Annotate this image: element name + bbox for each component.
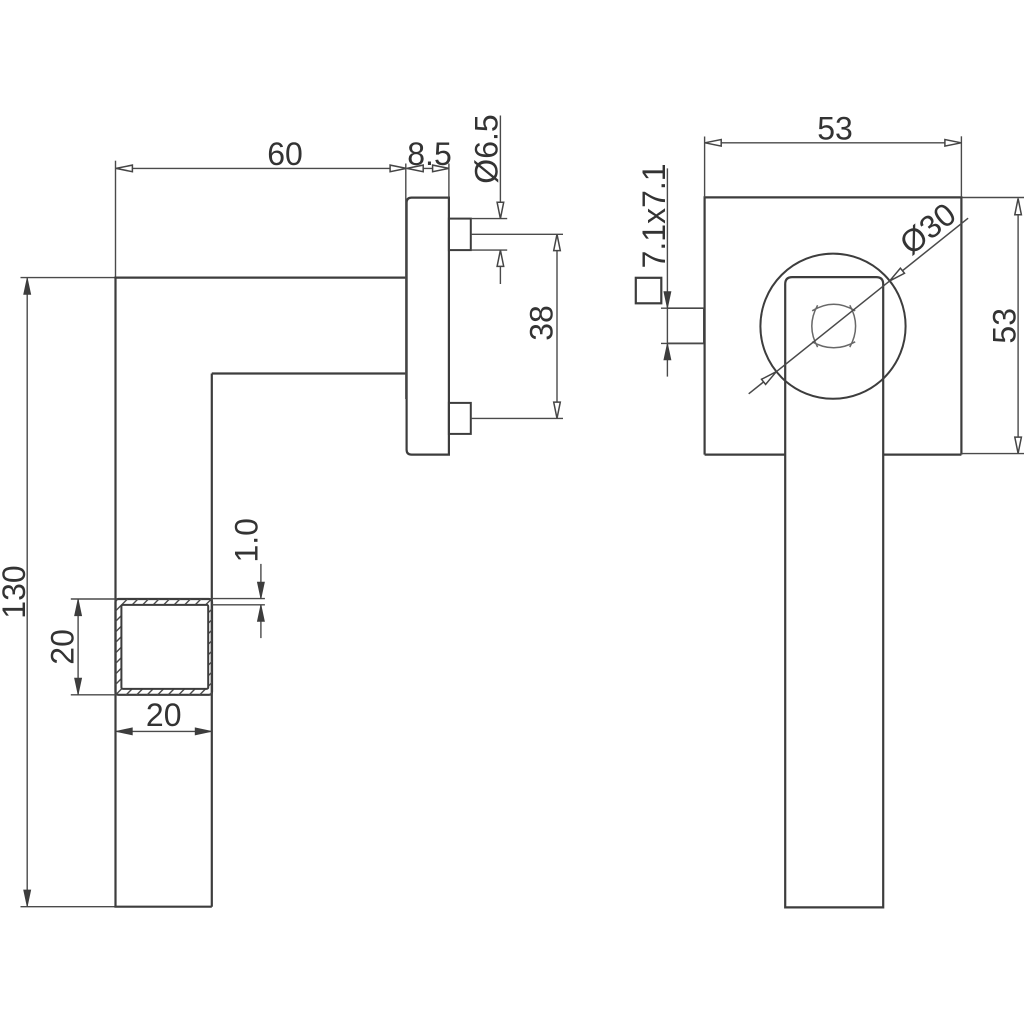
svg-text:Ø6.5: Ø6.5 — [469, 114, 505, 183]
right view: spindle square hole outline — [812, 304, 856, 348]
dimension 38 — [471, 233, 563, 235]
right view: spindle end (7.1x7.1) — [668, 308, 704, 343]
svg-text:7.1x7.1: 7.1x7.1 — [636, 163, 672, 268]
dimension 130 — [26, 278, 28, 906]
right view: neck circle dia 30 — [760, 254, 905, 399]
dimension 53 right — [961, 197, 1024, 199]
dimension 60 — [116, 167, 406, 169]
svg-text:60: 60 — [267, 136, 303, 172]
right view: handle bar front — [785, 277, 883, 907]
left view: square tube cross-section inner square — [121, 605, 208, 689]
left view: grip inner corner line — [212, 372, 407, 374]
left view: handle grip top outline — [21, 277, 116, 279]
svg-text:Ø30: Ø30 — [893, 196, 963, 262]
dimension dia 30 diagonal — [749, 218, 968, 394]
square symbol for 7.1x7.1 — [636, 278, 662, 304]
dimension 1.0 (wall thickness) — [212, 598, 265, 600]
left view: 8.5 extension line right — [448, 164, 450, 198]
left view: top screw boss — [449, 219, 471, 251]
svg-text:130: 130 — [0, 565, 32, 618]
svg-text:38: 38 — [524, 305, 560, 341]
dimension 7.1x7.1 — [661, 307, 704, 309]
left view: square tube cross-section outer square — [116, 599, 213, 695]
dimension 53 top — [704, 137, 706, 198]
dimension 20 horizontal (section width) — [116, 730, 213, 732]
svg-text:8.5: 8.5 — [407, 136, 451, 172]
left view: 8.5 extension line over cap left edge — [405, 164, 407, 400]
svg-text:20: 20 — [146, 697, 182, 733]
svg-text:53: 53 — [986, 308, 1022, 344]
left view: handle bar right edge — [211, 374, 213, 907]
right view: square rose plate — [705, 197, 962, 454]
dimension dia 6.5 — [471, 218, 507, 220]
left view: cross-section hatching — [116, 599, 213, 695]
left view: handle bar left edge — [115, 161, 117, 278]
svg-text:53: 53 — [817, 111, 853, 147]
left view: bottom screw boss — [449, 403, 471, 434]
left view: bar bottom edge — [21, 906, 116, 908]
left view: rose cap side profile — [407, 198, 449, 455]
svg-text:1.0: 1.0 — [229, 518, 265, 562]
dimension 20 vertical (section height) — [71, 598, 116, 600]
dimension 8.5 — [407, 167, 449, 169]
svg-text:20: 20 — [45, 629, 81, 665]
